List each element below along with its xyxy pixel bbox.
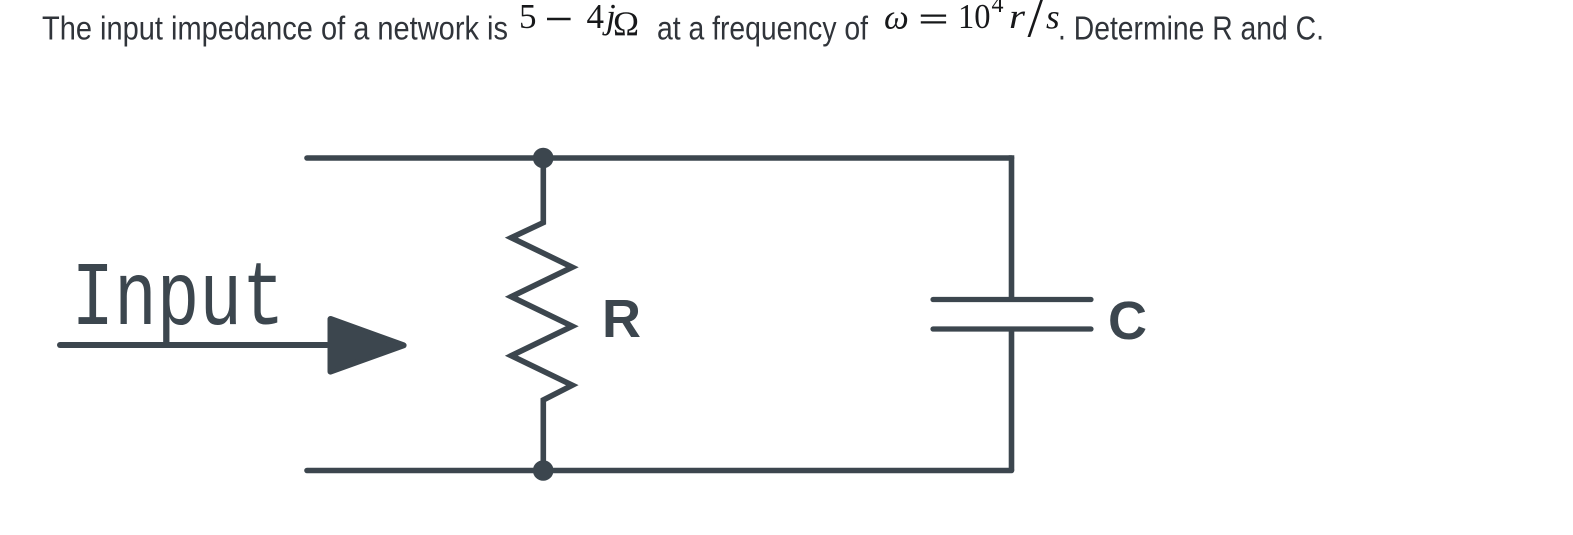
svg-text:at a frequency of: at a frequency of — [657, 11, 869, 48]
node junction top — [533, 148, 554, 169]
bottom wire — [307, 468, 1012, 474]
svg-text:r: r — [1009, 0, 1025, 36]
svg-text:R: R — [602, 289, 641, 349]
math equals — [921, 16, 946, 23]
svg-text:Input: Input — [71, 248, 284, 352]
input arrow line — [60, 342, 327, 348]
svg-text:. Determine R and C.: . Determine R and C. — [1058, 11, 1324, 48]
capacitor C1 bottom plate — [933, 326, 1091, 331]
right wire lower segment — [1009, 329, 1015, 471]
top wire — [307, 155, 1012, 161]
svg-text:ω: ω — [884, 0, 909, 37]
svg-text:Ω: Ω — [613, 5, 639, 44]
input arrowhead — [331, 319, 404, 372]
svg-text:5: 5 — [519, 0, 537, 36]
svg-text:/: / — [1028, 0, 1044, 49]
math minus — [547, 18, 571, 21]
capacitor C1 top plate — [933, 297, 1091, 302]
node junction bottom — [533, 460, 554, 481]
svg-text:C: C — [1108, 291, 1147, 351]
right wire upper segment — [1009, 155, 1015, 299]
resistor R1 zigzag — [511, 158, 572, 471]
svg-text:4: 4 — [587, 0, 605, 36]
svg-text:10: 10 — [958, 0, 991, 36]
svg-text:4: 4 — [992, 0, 1004, 18]
svg-text:The input impedance of a netwo: The input impedance of a network is — [42, 11, 508, 48]
